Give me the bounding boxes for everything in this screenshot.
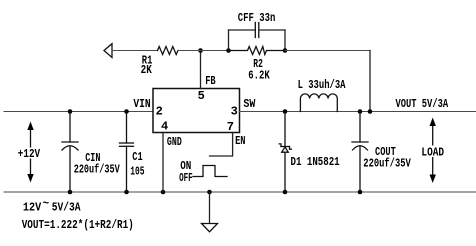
svg-text:2: 2 — [156, 104, 163, 118]
label CIN — [85, 151, 100, 165]
wire R1 to R2 network — [178, 50, 229, 52]
svg-text:L 33uh/3A: L 33uh/3A — [298, 78, 346, 92]
svg-text:CFF 33n: CFF 33n — [238, 11, 276, 25]
svg-text:105: 105 — [130, 164, 144, 178]
wire EN pin 7 stub — [210, 133, 233, 157]
note tilde — [43, 197, 50, 211]
+12V range arrow — [27, 122, 33, 183]
pin number 2 — [156, 104, 163, 118]
value label 105 — [130, 164, 144, 178]
node C1 junction on VIN rail — [124, 109, 129, 114]
wire CFF loop left riser — [228, 30, 230, 51]
value label L 33uh/3A — [298, 78, 346, 92]
LOAD arrow — [430, 118, 436, 184]
svg-text:FB: FB — [205, 74, 215, 88]
svg-text:12V: 12V — [23, 201, 42, 215]
svg-text:D1 1N5821: D1 1N5821 — [291, 155, 340, 169]
pin label EN — [235, 134, 245, 148]
node diode junction on SW rail — [283, 109, 288, 114]
svg-text:5: 5 — [198, 89, 205, 103]
value label D1 1N5821 — [291, 155, 340, 169]
node diode ground junction — [283, 190, 288, 195]
label ON — [180, 159, 191, 173]
pin label VIN — [133, 97, 150, 111]
wire feedback to output node — [285, 51, 370, 112]
node CIN ground junction — [68, 190, 73, 195]
svg-text:VOUT=1.222*(1+R2/R1): VOUT=1.222*(1+R2/R1) — [22, 218, 134, 232]
wire GND pin 4 to ground — [162, 133, 164, 193]
value label 2K — [141, 63, 153, 77]
pin number 4 — [161, 120, 168, 134]
svg-text:GND: GND — [167, 135, 182, 149]
svg-text:7: 7 — [227, 120, 234, 134]
svg-text:4: 4 — [161, 120, 168, 134]
pin number 3 — [231, 104, 238, 118]
node COUT junction — [358, 109, 363, 114]
capacitor CIN — [62, 112, 78, 193]
label C1 — [132, 150, 142, 164]
svg-text:EN: EN — [235, 134, 245, 148]
svg-text:VIN: VIN — [133, 97, 150, 111]
node CIN junction on VIN rail — [68, 109, 73, 114]
label COUT — [375, 145, 396, 159]
svg-text:220uf/35V: 220uf/35V — [363, 156, 411, 170]
diode D1 1N5821 — [279, 112, 291, 193]
capacitor CFF — [255, 23, 258, 38]
wire from arrow to R1 — [112, 50, 158, 52]
label OFF — [179, 171, 193, 185]
wire ground rail — [4, 191, 476, 193]
svg-text:OFF: OFF — [179, 171, 193, 185]
label R1 — [142, 54, 153, 68]
wire SW output rail — [240, 111, 476, 113]
svg-text:SW: SW — [243, 97, 256, 111]
node COUT ground junction — [358, 190, 363, 195]
svg-text:VOUT 5V/3A: VOUT 5V/3A — [396, 97, 449, 111]
note 12V — [23, 201, 42, 215]
regulator IC U1 box — [153, 89, 240, 133]
pin number 5 — [198, 89, 205, 103]
pin number 7 — [227, 120, 234, 134]
svg-text:~: ~ — [43, 197, 50, 211]
value label CFF 33n — [238, 11, 276, 25]
node feedback junction on output rail — [368, 109, 373, 114]
value label 220uf/35V (CIN) — [74, 162, 121, 176]
wire FB pin 5 vertical — [200, 51, 202, 89]
svg-text:2K: 2K — [141, 63, 153, 77]
node R2 left junction — [226, 48, 231, 53]
label LOAD — [421, 146, 444, 160]
svg-text:5V/3A: 5V/3A — [52, 201, 82, 215]
value label 220uf/35V (COUT) — [363, 156, 411, 170]
wire CFF top lead left — [229, 29, 256, 31]
pin label SW — [243, 97, 256, 111]
net label VOUT 5V/3A — [396, 97, 449, 111]
resistor R1 — [158, 47, 179, 55]
node GND pin ground junction — [161, 190, 166, 195]
net label +12V — [18, 147, 41, 161]
svg-text:LOAD: LOAD — [421, 146, 444, 160]
ground symbol — [202, 192, 218, 232]
svg-text:C1: C1 — [132, 150, 142, 164]
input port arrow (open triangle) — [104, 44, 112, 58]
white backing for LOAD label — [420, 146, 446, 158]
node ground symbol junction — [207, 190, 212, 195]
wire CFF top lead right — [259, 29, 285, 31]
wire CFF loop right riser — [284, 30, 286, 51]
node C1 ground junction — [124, 190, 129, 195]
pin label FB — [205, 74, 215, 88]
svg-text:+12V: +12V — [18, 147, 41, 161]
capacitor COUT — [352, 112, 368, 193]
resistor R2 — [229, 47, 286, 55]
node FB junction — [198, 48, 203, 53]
wire input rail left (VIN rail) — [4, 111, 153, 113]
note 5V/3A — [52, 201, 82, 215]
label R2 — [253, 57, 263, 71]
capacitor C1 — [120, 112, 134, 193]
value label 6.2K — [248, 69, 270, 83]
white backing for +12V label — [17, 148, 43, 159]
svg-text:3: 3 — [231, 104, 238, 118]
svg-text:6.2K: 6.2K — [248, 69, 270, 83]
svg-text:220uf/35V: 220uf/35V — [74, 162, 121, 176]
node R2 right junction — [283, 48, 288, 53]
note VOUT formula — [22, 218, 134, 232]
inductor L 33uh/3A — [300, 94, 337, 112]
ON/OFF pulse waveform — [193, 166, 227, 177]
pin label GND — [167, 135, 182, 149]
